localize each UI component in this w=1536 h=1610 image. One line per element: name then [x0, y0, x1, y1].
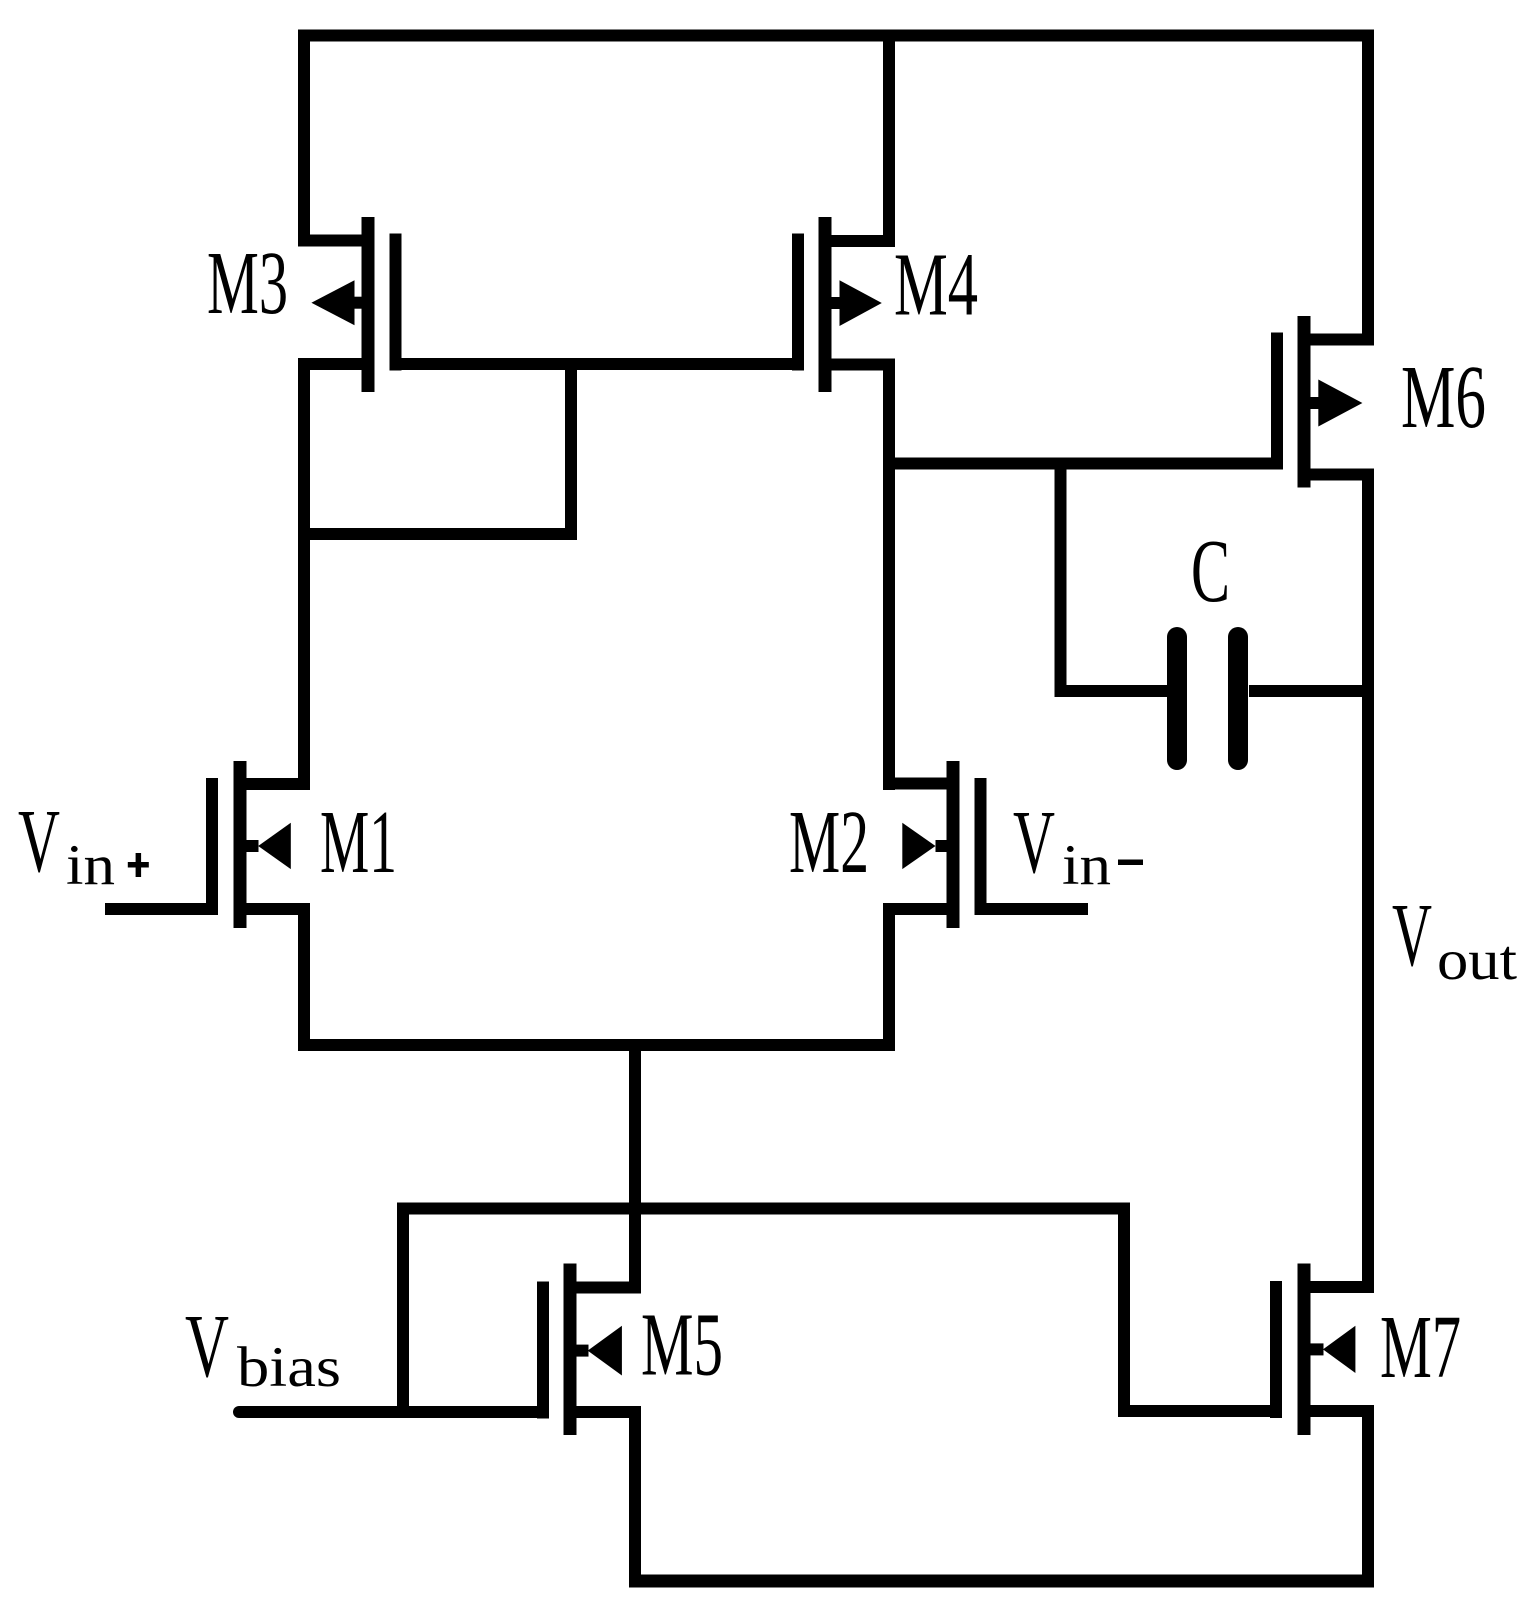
wire capacitor right lead [1249, 685, 1374, 697]
wire Vin+ lead [105, 903, 218, 915]
wire M3 diode connection vertical [565, 358, 577, 540]
wire left rail drop to M3 source [298, 30, 310, 247]
transistor M5 [537, 1264, 641, 1436]
label Vin- [1013, 793, 1143, 897]
wire Vbias lead [233, 1406, 549, 1418]
svg-text:V: V [1013, 793, 1055, 892]
wire Vbias loop vertical right [1118, 1203, 1130, 1418]
svg-text:in: in [66, 834, 115, 897]
wire M3 drain down to M1 drain [298, 358, 310, 790]
wire Vout vertical [1362, 469, 1374, 1294]
svg-text:in: in [1062, 834, 1111, 897]
svg-text:M3: M3 [207, 234, 288, 333]
label Vbias [185, 1297, 341, 1399]
svg-text:M5: M5 [641, 1296, 723, 1395]
svg-text:M2: M2 [789, 793, 869, 892]
svg-text:M7: M7 [1380, 1298, 1461, 1397]
wire M5 source down to ground rail [629, 1406, 641, 1587]
wire M4 drain to M6 gate [883, 458, 1283, 470]
label Vout [1392, 886, 1517, 992]
svg-text:V: V [1392, 886, 1432, 985]
wire M4 source up to rail [883, 30, 895, 248]
wire M3 gate to M4 gate [390, 358, 805, 370]
wire VDD top rail [298, 30, 1374, 42]
svg-text:out: out [1437, 929, 1517, 992]
wire M7 gate lead [1118, 1405, 1282, 1417]
wire M7 source down to ground rail [1362, 1405, 1374, 1587]
svg-text:C: C [1191, 522, 1230, 621]
transistor M2 [883, 761, 987, 928]
wire M6 source up to rail [1362, 30, 1374, 346]
transistor M6 [1271, 316, 1374, 488]
svg-text:V: V [185, 1297, 229, 1396]
wire capacitor left lead [1055, 685, 1168, 697]
wire Vbias loop vertical left [397, 1203, 409, 1419]
label Vin+ [18, 792, 149, 897]
wire bottom ground rail [629, 1575, 1374, 1588]
transistor M3 [298, 217, 402, 392]
wire Vin- lead [975, 903, 1089, 915]
svg-text:bias: bias [237, 1336, 341, 1399]
svg-text:M1: M1 [320, 793, 397, 892]
wire capacitor branch vertical [1055, 458, 1067, 698]
transistor M7 [1270, 1264, 1374, 1436]
wire M2 source down to tail [883, 903, 895, 1051]
transistor M1 [206, 761, 310, 928]
wire Vbias loop horizontal [397, 1203, 1130, 1215]
wire M3 diode connection horizontal [298, 528, 577, 540]
wire tail down to M5 drain [629, 1039, 641, 1294]
wire M7 drain from Vout [1362, 1281, 1374, 1293]
capacitor C [1177, 637, 1238, 760]
svg-text:M4: M4 [894, 236, 978, 335]
transistor M4 [792, 217, 895, 392]
wire M4 drain down to M2 drain [883, 359, 895, 791]
wire tail node horizontal [298, 1039, 895, 1051]
svg-text:M6: M6 [1401, 348, 1486, 447]
svg-text:V: V [18, 792, 60, 891]
wire M1 source down to tail [298, 903, 310, 1051]
